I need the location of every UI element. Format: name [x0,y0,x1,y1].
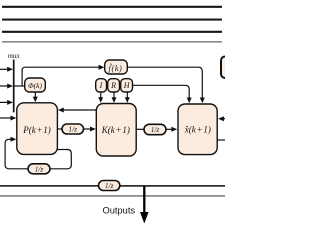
arrow R to K [112,92,117,103]
bus line 3 [2,31,222,33]
svg-text:K(k + 1): K(k + 1) [101,125,130,135]
clipped block at right edge [221,57,235,79]
svg-text:1/z: 1/z [151,125,160,134]
input arrow into P left edge [0,116,16,121]
svg-text:x̂(k + 1): x̂(k + 1) [184,124,211,134]
svg-text:f̃(k): f̃(k) [109,63,123,73]
block R [108,79,120,92]
wire mux to Phi [14,85,25,87]
arrow from right edge into x-hat right [218,116,225,121]
svg-text:mux: mux [8,52,21,60]
wire f-tilde right, over and down into x-hat top [127,67,202,97]
block K(k+1) [96,104,136,157]
delay 1/z (on bus line A) [99,181,120,191]
delay 1/z (P to K) [62,124,84,134]
svg-text:P(k + 1): P(k + 1) [22,125,51,135]
svg-text:1/z: 1/z [68,125,77,134]
arrow I to K [98,92,103,103]
arrow K left to P right (feedback) [58,108,96,113]
wire H right, over and down into x-hat top [133,85,190,97]
block Phi(k) [25,78,46,92]
input arrow 2 into mux [0,84,13,89]
arrow Phi to P top [33,92,38,102]
arrow H to K [125,92,130,103]
svg-text:R: R [110,81,116,90]
mux bar [13,60,15,113]
bottom bus line B [0,195,225,197]
wire P right to 1/z to K [57,128,62,130]
input arrow 3 into mux [0,100,13,105]
wire K right to 1/z to x-hat [136,128,144,130]
bus line 1 (top) [2,6,222,8]
arrow into P left edge (loop) [11,137,17,142]
block I [96,79,107,92]
svg-text:I: I [99,81,103,90]
svg-text:Φ(k): Φ(k) [28,81,43,90]
wire x-hat right output [217,139,225,141]
block P(k+1) [17,103,58,155]
bus line 2 [2,18,222,20]
block f-tilde(k) [105,60,128,74]
delay 1/z (K to x-hat) [144,124,166,134]
delay 1/z (below P) [28,164,50,174]
input arrow 1 into mux [0,67,13,72]
feedback loop from P right, down, left through 1/z, up into P left [50,150,71,169]
svg-text:1/z: 1/z [35,164,44,173]
wire branch up to f-tilde [22,67,99,86]
bottom bus line A [0,185,225,187]
thick outputs arrow [140,186,149,224]
arrow into f-tilde box [99,65,105,70]
bus line 4 (gray) [2,41,222,43]
block x-hat(k+1) [178,104,217,155]
svg-text:Outputs: Outputs [103,205,136,215]
block H [121,79,133,92]
svg-text:1/z: 1/z [105,181,114,190]
